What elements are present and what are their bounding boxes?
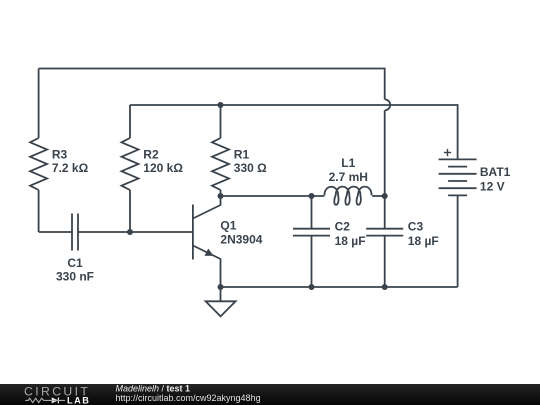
svg-text:http://circuitlab.com/cw92akyn: http://circuitlab.com/cw92akyng48hg xyxy=(116,393,261,403)
wire top net (R3 top to tank) xyxy=(39,69,385,100)
svg-text:330 nF: 330 nF xyxy=(56,270,94,284)
svg-text:120 kΩ: 120 kΩ xyxy=(143,161,183,175)
capacitor C1 xyxy=(72,214,78,251)
wire vertical into tank top xyxy=(384,110,386,196)
wire R2 top lead xyxy=(129,105,131,138)
wire C3 bottom lead xyxy=(384,236,386,287)
wire battery bottom lead xyxy=(457,195,459,287)
svg-text:R1: R1 xyxy=(234,147,250,161)
label C1 xyxy=(56,256,94,284)
svg-text:L1: L1 xyxy=(341,156,355,170)
wire R3 top lead xyxy=(38,69,40,139)
transistor Q1 xyxy=(193,196,221,287)
svg-text:C3: C3 xyxy=(408,220,424,234)
node emitter junction xyxy=(218,284,224,290)
wire base net left segment xyxy=(39,231,72,233)
inductor L1 xyxy=(324,187,371,205)
wire emitter bottom net xyxy=(221,286,458,288)
label L1 xyxy=(329,156,368,184)
svg-text:2.7 mH: 2.7 mH xyxy=(329,170,368,184)
svg-text:330 Ω: 330 Ω xyxy=(234,161,267,175)
svg-text:C1: C1 xyxy=(67,256,83,270)
node collector junction xyxy=(218,193,224,199)
resistor R1 xyxy=(212,138,229,190)
svg-text:R3: R3 xyxy=(52,147,68,161)
label BAT1 xyxy=(480,165,511,193)
node R1 top junction xyxy=(218,102,224,108)
wire C2 bottom lead xyxy=(311,236,313,287)
label R3 xyxy=(52,147,89,175)
label C3 xyxy=(408,220,439,249)
battery plus sign xyxy=(444,149,451,156)
node C2 bottom junction xyxy=(309,284,315,290)
wire R1 top lead xyxy=(220,105,222,138)
svg-text:12 V: 12 V xyxy=(480,179,505,193)
svg-text:7.2 kΩ: 7.2 kΩ xyxy=(52,161,89,175)
label Q1 xyxy=(220,218,262,246)
svg-text:LAB: LAB xyxy=(67,396,90,405)
footer bar xyxy=(0,384,540,405)
node C2 top junction xyxy=(309,193,315,199)
logo resistor zigzag xyxy=(25,398,48,402)
wire R2 bottom lead xyxy=(129,190,131,232)
wire ground lead xyxy=(220,287,222,301)
capacitor C2 xyxy=(293,229,330,236)
label R1 xyxy=(234,147,267,175)
battery BAT1 xyxy=(439,159,477,195)
ground xyxy=(206,301,236,316)
svg-text:BAT1: BAT1 xyxy=(480,165,511,179)
label C2 xyxy=(335,220,366,249)
svg-text:C2: C2 xyxy=(335,220,351,234)
wire net2 (R2 top to battery +) xyxy=(130,105,458,159)
wire collector net to L1 xyxy=(221,195,325,197)
resistor R2 xyxy=(122,138,139,190)
node R2 bottom junction xyxy=(127,229,133,235)
wire hop over net2 xyxy=(385,99,391,110)
node C3 top junction xyxy=(382,193,388,199)
svg-text:18 µF: 18 µF xyxy=(335,234,366,248)
wire R3 bottom lead xyxy=(38,190,40,232)
wire L1 right lead xyxy=(372,195,385,197)
svg-text:18 µF: 18 µF xyxy=(408,234,439,248)
svg-text:2N3904: 2N3904 xyxy=(220,233,262,247)
logo diode xyxy=(49,397,66,403)
resistor R3 xyxy=(30,138,47,190)
svg-text:R2: R2 xyxy=(143,147,159,161)
wire C3 top lead xyxy=(384,196,386,229)
node C3 bottom junction xyxy=(382,284,388,290)
svg-text:Q1: Q1 xyxy=(220,218,236,232)
wire R1 bottom lead xyxy=(220,190,222,196)
label R2 xyxy=(143,147,183,175)
wire C2 top lead xyxy=(311,196,313,229)
capacitor C3 xyxy=(366,229,403,236)
wire base net right segment xyxy=(78,231,193,233)
